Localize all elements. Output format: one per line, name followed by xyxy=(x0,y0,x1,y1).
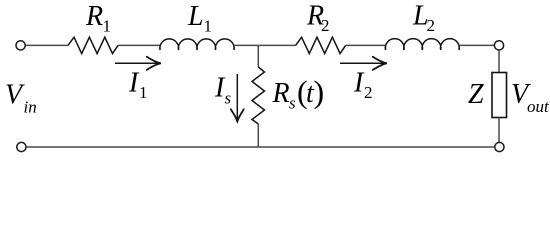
svg-text:Z: Z xyxy=(468,79,484,110)
wire: Rs to bottom rail xyxy=(257,124,259,147)
current arrow I2 xyxy=(340,62,386,64)
svg-text:1: 1 xyxy=(103,17,112,36)
wire bottom rail xyxy=(26,146,494,148)
svg-text:s: s xyxy=(225,89,232,108)
terminal top-right (output +) xyxy=(494,41,503,50)
inductor L1 xyxy=(160,39,234,50)
svg-text:V: V xyxy=(5,80,25,111)
svg-text:2: 2 xyxy=(364,83,373,102)
svg-text:out: out xyxy=(527,97,550,116)
current arrow Is (downward) xyxy=(236,74,238,121)
svg-text:): ) xyxy=(314,74,325,110)
terminal top-left (input +) xyxy=(16,41,25,50)
resistor R1 xyxy=(68,37,118,53)
inductor L2 xyxy=(385,39,459,50)
wire top: L2 to output terminal xyxy=(459,44,494,46)
wire top: R1 to L1 xyxy=(118,44,160,46)
wire: Z down to bottom-right terminal xyxy=(498,118,500,143)
wire top: L1 to node A xyxy=(234,44,296,46)
svg-text:2: 2 xyxy=(427,16,436,35)
wire: node A down to Rs xyxy=(257,45,259,67)
wire top: R2 to L2 xyxy=(346,44,386,46)
resistor Rs (shunt, vertical) xyxy=(252,67,265,124)
svg-text:R: R xyxy=(272,78,290,109)
svg-text:L: L xyxy=(187,1,204,32)
svg-text:1: 1 xyxy=(204,17,213,36)
wire: output terminal down to Z xyxy=(498,50,500,72)
svg-text:1: 1 xyxy=(139,83,148,102)
svg-text:in: in xyxy=(24,98,37,117)
svg-text:s: s xyxy=(289,94,296,113)
resistor R2 xyxy=(296,37,346,53)
svg-text:2: 2 xyxy=(321,16,330,35)
terminal bottom-left (input -) xyxy=(17,142,26,151)
terminal bottom-right (output -) xyxy=(495,142,504,151)
svg-text:R: R xyxy=(85,1,103,32)
current arrow I1 xyxy=(115,62,160,64)
impedance Z (load box) xyxy=(492,73,507,118)
wire top: input terminal to R1 xyxy=(25,44,68,46)
